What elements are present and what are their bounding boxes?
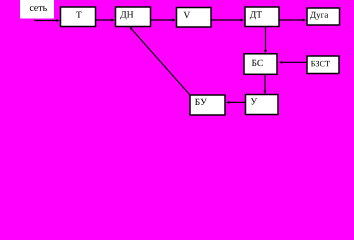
wire У to БУ with arrowhead (226, 101, 246, 104)
block Дуга (arc) (307, 8, 340, 25)
wire ДТ to Дуга with arrowhead (279, 19, 306, 22)
block ДН (voltage divider) (116, 7, 151, 27)
block БЗСТ (welding current setpoint block) (307, 56, 339, 74)
wire сеть to Т with arrowhead (34, 19, 60, 22)
block У (amplifier) (246, 95, 279, 115)
wire V to ДТ with arrowhead (211, 19, 244, 22)
wire БУ diagonal up to ДН with arrowhead (129, 26, 190, 95)
wire БС down to У with arrowhead (263, 74, 266, 94)
block ДТ (current sensor) (245, 7, 279, 27)
wire Т to ДН with arrowhead (96, 19, 115, 22)
wire ДТ down to БС with arrowhead (264, 26, 267, 53)
block БС (comparison block) (244, 54, 277, 75)
block Т (transformer) (61, 7, 96, 27)
node сеть (mains label box) (20, 0, 54, 19)
wire БЗСТ to БС with arrowhead (279, 61, 307, 64)
block V (voltmeter) (177, 8, 212, 28)
block БУ (control block) (190, 95, 225, 115)
wire ДН to V with arrowhead (151, 19, 176, 22)
